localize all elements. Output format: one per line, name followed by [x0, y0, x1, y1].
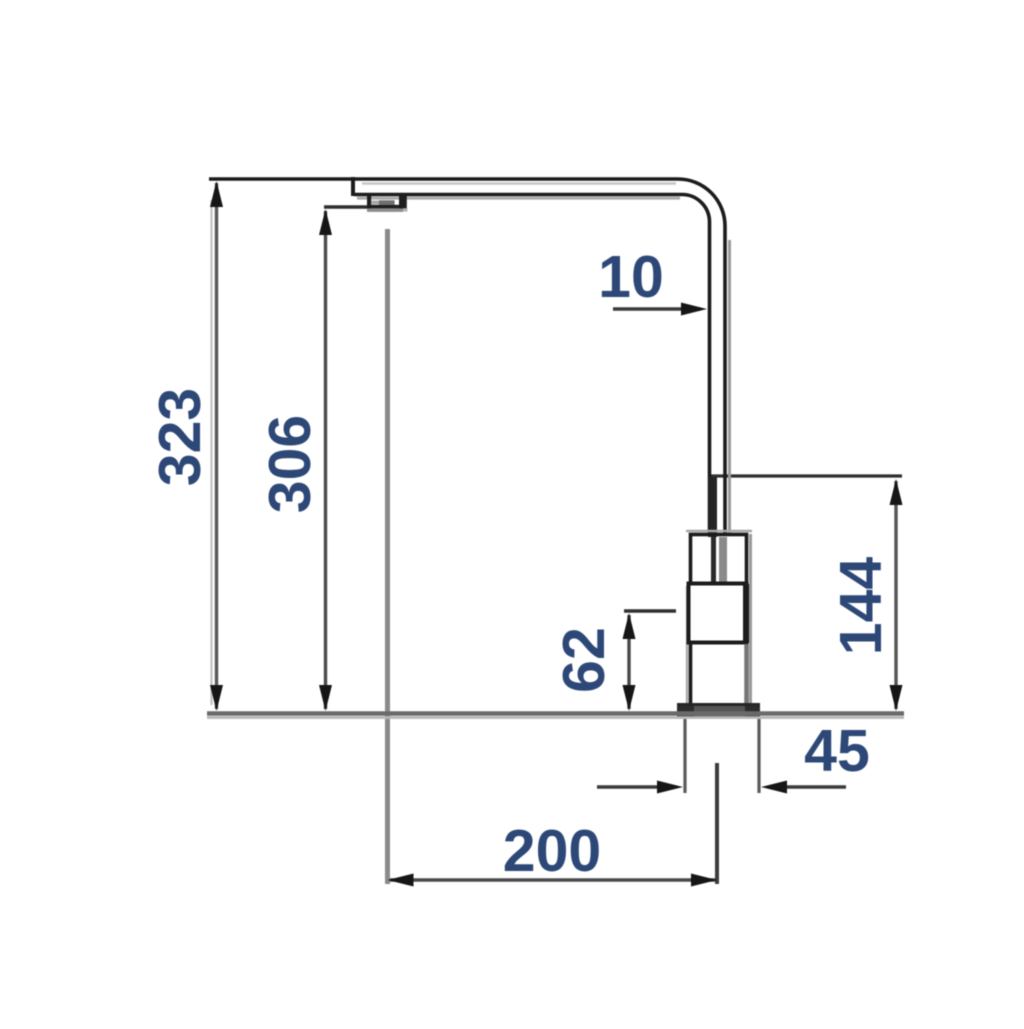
aerator right edge [399, 196, 407, 209]
aerator bottom edge [367, 205, 403, 209]
arrow 62 top [623, 613, 636, 639]
body bottom right edge gray [744, 644, 749, 703]
svg-text:10: 10 [598, 244, 664, 310]
base plate right cap [745, 703, 760, 717]
base plate fill [677, 703, 760, 717]
extension line 144 (top of body height) [711, 474, 902, 477]
extension line 45 right [757, 719, 760, 793]
arrow 62 bottom [623, 685, 636, 711]
dim 323 shadow line [210, 200, 212, 705]
arrow 200 right [691, 874, 717, 887]
arrow 200 left [388, 874, 414, 887]
dim 45 right leader [784, 785, 846, 788]
arrow 45 right [761, 781, 787, 794]
dim line 62 [627, 615, 630, 709]
countertop line [207, 711, 904, 716]
body top shadow [686, 530, 752, 533]
extension line 45 left [683, 719, 686, 793]
arrow 306 top [319, 209, 332, 235]
arrow 144 bottom [890, 685, 903, 711]
supply pipe inside body (dark) [711, 537, 716, 582]
svg-text:323: 323 [147, 388, 213, 486]
svg-text:200: 200 [503, 818, 601, 884]
supply hose inside body (gray) [719, 537, 727, 582]
arrow 323 bottom [210, 685, 223, 711]
svg-text:62: 62 [551, 627, 617, 693]
body left shadow [686, 586, 688, 703]
arrow 45 left [657, 781, 683, 794]
svg-text:306: 306 [257, 415, 323, 513]
base plate top edge [677, 703, 760, 706]
extension line 306 [324, 205, 369, 208]
body bottom section left edge [689, 643, 693, 704]
aerator bottom shadow [367, 209, 403, 212]
shadow under spout top line [362, 182, 676, 185]
body right shadow [749, 534, 752, 703]
aerator inner light insert [371, 201, 379, 205]
dim 45 left leader [597, 785, 660, 788]
centerline spout outlet (gray vertical) [385, 229, 390, 884]
dim line 200 [390, 878, 715, 882]
base plate left cap [677, 703, 694, 717]
svg-text:144: 144 [828, 557, 894, 656]
dim line 10 leader [613, 307, 700, 310]
arrow 10 [681, 303, 707, 316]
body top section outline [691, 535, 747, 584]
arrow 323 top [210, 181, 223, 207]
shadow right of down tube [728, 240, 731, 534]
dim line 323 [215, 183, 218, 709]
arrow 306 bottom [319, 685, 332, 711]
aerator bottom shadow light [403, 208, 408, 211]
body middle section outline [689, 584, 747, 643]
aerator inner gray insert [379, 200, 395, 205]
countertop line shadow [207, 716, 904, 719]
supply pipe thick segment above body [708, 477, 717, 537]
extension line 62 [624, 609, 676, 612]
dim line 306 [324, 211, 327, 709]
faucet spout inner outline (bottom edge + inner curve + tube left edge) [354, 195, 710, 536]
svg-text:45: 45 [804, 718, 870, 784]
body middle right edge thick [743, 584, 749, 643]
faucet spout outer outline (top edge + right curve + tube right edge) [209, 179, 725, 535]
shadow under spout bottom line [357, 197, 680, 200]
aerator left edge [367, 196, 371, 208]
spout left end cap [351, 177, 355, 196]
arrow 144 top [890, 479, 903, 505]
dim line 144 [894, 481, 897, 709]
centerline faucet body below counter [715, 763, 719, 884]
